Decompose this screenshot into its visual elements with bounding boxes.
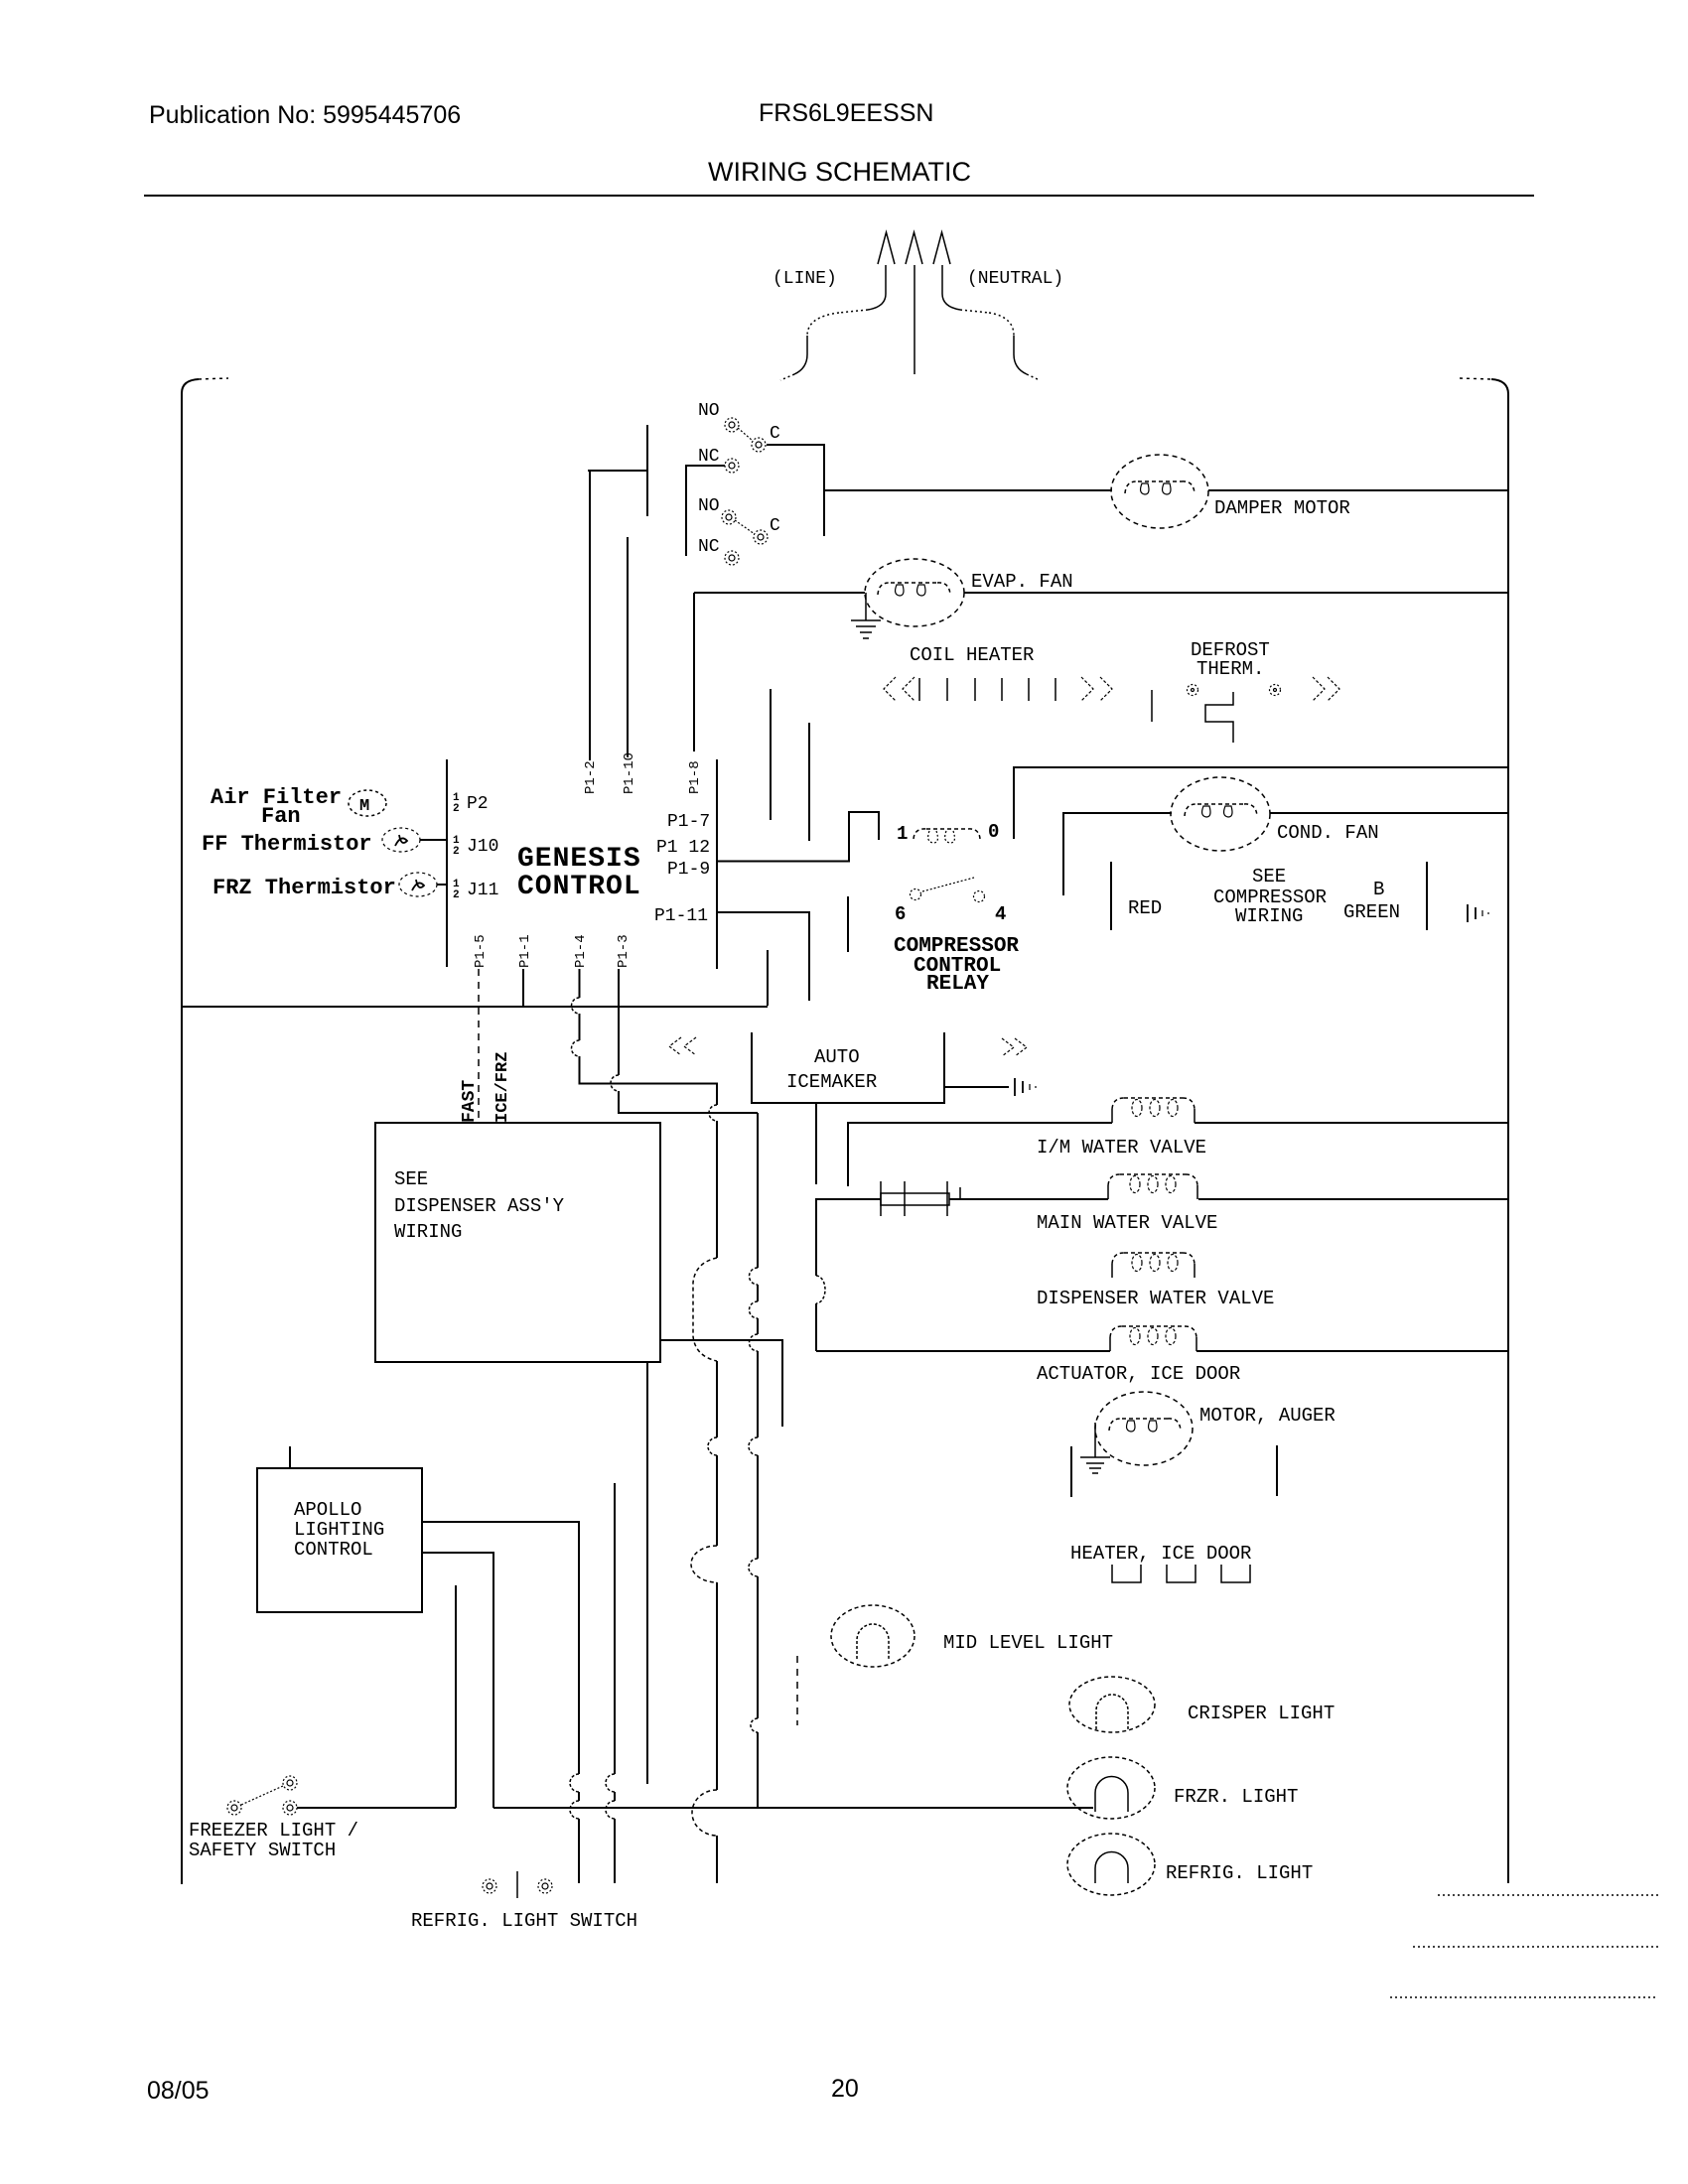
wire damper motor row [824, 489, 1508, 491]
wire column from dispenser box bottom [646, 1362, 648, 1784]
wire cond fan row [1063, 813, 1508, 895]
lamp crisper light [1069, 1677, 1155, 1732]
lamp frzr light [1067, 1757, 1155, 1819]
label FRZR. LIGHT [1174, 1786, 1298, 1808]
power plug left body curve [780, 313, 839, 380]
svg-text:C: C [770, 424, 780, 444]
svg-text:Fan: Fan [261, 804, 301, 829]
motor damper M1 [1111, 455, 1208, 528]
svg-text:NO: NO [698, 496, 720, 516]
heater ice door element 1 [1112, 1565, 1141, 1582]
freezer light safety switch left contact [227, 1801, 241, 1815]
pin label P1-11 [654, 906, 708, 926]
wire P1-5 dashed column [478, 969, 480, 1123]
switch SW1 damper lever [738, 428, 753, 441]
wire stub column x459 [455, 1585, 457, 1808]
genesis control board outline [447, 759, 717, 969]
svg-text:LIGHTING: LIGHTING [294, 1519, 384, 1541]
label COIL HEATER [910, 644, 1034, 666]
svg-text:B: B [1373, 879, 1384, 900]
svg-text:SEE: SEE [1252, 866, 1286, 887]
label DISPENSER WATER VALVE [1037, 1288, 1274, 1309]
svg-text:AUTO: AUTO [814, 1046, 860, 1068]
svg-text:DISPENSER WATER VALVE: DISPENSER WATER VALVE [1037, 1288, 1274, 1309]
solenoid I/M water valve coil [1112, 1098, 1195, 1123]
form dotted line 2 [1413, 1946, 1659, 1948]
connector chevrons left of icemaker [669, 1037, 696, 1055]
wire P1-4 column with hops [572, 969, 718, 1121]
hop column x619 at lights rail [606, 1774, 615, 1883]
svg-text:FRZR. LIGHT: FRZR. LIGHT [1174, 1786, 1298, 1808]
wire stub above main rail [767, 950, 769, 1006]
refrig light switch left contact [483, 1879, 496, 1893]
pin label P1-2 rotated [583, 760, 599, 794]
svg-text:P1-11: P1-11 [654, 906, 708, 926]
lamp mid level light [831, 1605, 914, 1667]
svg-text:(NEUTRAL): (NEUTRAL) [967, 269, 1063, 289]
defrost thermostat right contact [1270, 685, 1281, 696]
svg-text:CONTROL: CONTROL [517, 872, 641, 902]
label GREEN [1343, 901, 1400, 923]
svg-text:FRZ Thermistor: FRZ Thermistor [212, 876, 396, 900]
label HEATER, ICE DOOR [1070, 1543, 1251, 1565]
svg-text:WIRING SCHEMATIC: WIRING SCHEMATIC [708, 157, 971, 187]
label MID LEVEL LIGHT [943, 1632, 1113, 1654]
chassis border left edge [182, 378, 228, 1884]
wire P1-1 column [522, 969, 524, 1006]
label REFRIG. LIGHT [1166, 1862, 1313, 1884]
thermistor FRZ symbol [399, 873, 447, 896]
pin label P1-5 rotated [473, 934, 489, 968]
label FRZ Thermistor [212, 876, 396, 900]
svg-text:GREEN: GREEN [1343, 901, 1400, 923]
connector chevrons right of coil heater [1081, 677, 1112, 701]
label B [1373, 879, 1384, 900]
power plug center arrow [906, 232, 922, 264]
switch SW1 damper C label [770, 424, 780, 444]
wire evap fan row [694, 592, 1508, 594]
pin label J11 [453, 879, 498, 901]
title Publication No [149, 101, 461, 129]
svg-text:P1 12: P1 12 [656, 838, 710, 858]
label DAMPER MOTOR [1214, 497, 1350, 519]
svg-text:SAFETY SWITCH: SAFETY SWITCH [189, 1840, 336, 1861]
switch SW2 C label [770, 516, 780, 536]
wire dashed mid light to crisper [796, 1656, 798, 1725]
svg-text:ICE/FRZ: ICE/FRZ [493, 1052, 512, 1123]
label SEE COMPRESSOR WIRING [1213, 866, 1327, 927]
title WIRING SCHEMATIC [708, 157, 971, 187]
svg-text:P1-2: P1-2 [583, 760, 599, 794]
svg-text:2: 2 [453, 889, 460, 901]
solenoid main water valve coil [1108, 1174, 1197, 1199]
svg-text:WIRING: WIRING [1235, 905, 1303, 927]
wire top rail to right border [1014, 767, 1508, 839]
svg-text:APOLLO: APOLLO [294, 1499, 361, 1521]
chassis border right edge [1460, 378, 1508, 1883]
wire apollo lower output [422, 1553, 493, 1808]
svg-text:J11: J11 [467, 881, 498, 900]
pin label P1-8 rotated [687, 760, 703, 794]
svg-text:20: 20 [831, 2075, 859, 2103]
svg-text:P1-1: P1-1 [517, 934, 533, 968]
switch SW2 C contact [754, 530, 768, 544]
svg-text:ICEMAKER: ICEMAKER [786, 1071, 877, 1093]
relay coil pin 1 label [897, 823, 908, 845]
svg-text:I/M WATER VALVE: I/M WATER VALVE [1037, 1137, 1206, 1159]
label FREEZER LIGHT / SAFETY SWITCH [189, 1820, 358, 1861]
svg-text:6: 6 [895, 903, 906, 925]
wire actuator row [816, 1350, 1508, 1352]
lamp refrig light [1067, 1834, 1155, 1895]
label EVAP. FAN [971, 571, 1073, 593]
switch SW2 NC contact [725, 551, 739, 565]
pin label P1-1 rotated [517, 934, 533, 968]
label AUTO ICEMAKER [786, 1046, 877, 1093]
form dotted line 3 [1390, 1996, 1655, 1998]
svg-text:0: 0 [988, 821, 999, 843]
switch SW2 NO contact [722, 510, 736, 524]
svg-text:COND. FAN: COND. FAN [1277, 822, 1379, 844]
motor condenser fan [1171, 777, 1270, 851]
pin label P1-9 [667, 860, 710, 880]
svg-text:MAIN WATER VALVE: MAIN WATER VALVE [1037, 1212, 1217, 1234]
defrost thermostat left contact [1188, 685, 1198, 696]
switch SW2 lever [735, 520, 755, 534]
label GENESIS CONTROL [517, 844, 641, 902]
label REFRIG. LIGHT SWITCH [411, 1910, 637, 1932]
wire main valve row [816, 1198, 1508, 1200]
switch SW1 damper NO label [698, 401, 720, 421]
wire icemaker to connector [944, 1086, 1009, 1088]
label LINE [773, 269, 837, 289]
svg-text:RED: RED [1128, 897, 1162, 919]
svg-text:ACTUATOR, ICE DOOR: ACTUATOR, ICE DOOR [1037, 1363, 1240, 1385]
svg-text:CONTROL: CONTROL [294, 1539, 373, 1561]
svg-text:P1-7: P1-7 [667, 812, 710, 832]
wire column x722 lower run [691, 1121, 717, 1883]
connector chevrons right of defrost [1313, 677, 1339, 701]
wire P1-3 column [611, 969, 758, 1113]
svg-text:REFRIG. LIGHT SWITCH: REFRIG. LIGHT SWITCH [411, 1910, 637, 1932]
svg-text:FRS6L9EESSN: FRS6L9EESSN [759, 99, 933, 127]
switch SW2 NC label [698, 537, 720, 557]
svg-text:NC: NC [698, 537, 720, 557]
svg-text:THERM.: THERM. [1196, 658, 1264, 680]
motor air filter fan M [349, 790, 386, 816]
label SEE DISPENSER ASSY WIRING [394, 1168, 565, 1243]
wire stub column x619 [614, 1483, 616, 1774]
connector plug compressor [1468, 904, 1488, 922]
label APOLLO LIGHTING CONTROL [294, 1499, 384, 1561]
svg-text:DAMPER MOTOR: DAMPER MOTOR [1214, 497, 1350, 519]
switch SW2 freezer-fan NO label [698, 496, 720, 516]
svg-text:FF Thermistor: FF Thermistor [202, 832, 372, 857]
svg-text:NO: NO [698, 401, 720, 421]
label ICE/FRZ rotated [493, 1052, 512, 1123]
wire stub right of auger [1276, 1445, 1278, 1496]
svg-text:P1-5: P1-5 [473, 934, 489, 968]
svg-text:RELAY: RELAY [926, 973, 989, 996]
footer page number [831, 2075, 859, 2103]
power plug right lead [942, 265, 989, 313]
svg-text:SEE: SEE [394, 1168, 428, 1190]
label CRISPER LIGHT [1188, 1703, 1335, 1724]
switch SW1 damper NC label [698, 447, 720, 467]
pin label P1-10 rotated [622, 752, 637, 794]
label MAIN WATER VALVE [1037, 1212, 1217, 1234]
svg-text:REFRIG. LIGHT: REFRIG. LIGHT [1166, 1862, 1313, 1884]
heater ice door element 2 [1167, 1565, 1196, 1582]
relay pin 4 label [995, 903, 1006, 925]
svg-text:2: 2 [453, 846, 460, 858]
wire stub above apollo box [289, 1446, 291, 1468]
label DEFROST THERM [1191, 639, 1270, 680]
heater coil element ticks [919, 678, 1055, 701]
label MOTOR, AUGER [1199, 1405, 1336, 1427]
svg-text:J10: J10 [467, 837, 498, 857]
wire main horizontal rail [182, 1006, 768, 1008]
wire P1-11 run [717, 912, 809, 1001]
title rule line [144, 195, 1534, 197]
wire P1-2 riser [588, 425, 647, 760]
connector plug icemaker [1015, 1078, 1036, 1096]
switch SW1 damper C contact [752, 438, 766, 452]
wire defrost stub right [808, 723, 810, 841]
svg-text:2: 2 [453, 803, 460, 815]
svg-text:DISPENSER ASS'Y: DISPENSER ASS'Y [394, 1195, 565, 1217]
refrig light switch bar [516, 1871, 518, 1898]
defrost thermostat bimetal [1205, 692, 1233, 743]
svg-text:EVAP. FAN: EVAP. FAN [971, 571, 1073, 593]
wire freezer switch to column [297, 1807, 456, 1809]
form dotted line 1 [1438, 1894, 1658, 1896]
solenoid actuator ice door coil [1110, 1326, 1196, 1351]
footer date [147, 2077, 210, 2105]
svg-text:P1-4: P1-4 [573, 934, 589, 968]
thermistor FF symbol [382, 828, 447, 852]
svg-text:P1-3: P1-3 [616, 934, 632, 968]
power plug right body curve [989, 313, 1040, 380]
svg-text:Publication No: 5995445706: Publication No: 5995445706 [149, 101, 461, 129]
wire apollo upper output [422, 1522, 579, 1774]
svg-text:NC: NC [698, 447, 720, 467]
label ACTUATOR, ICE DOOR [1037, 1363, 1240, 1385]
svg-text:1: 1 [897, 823, 908, 845]
fuse thermal cutoff [881, 1181, 960, 1216]
connector chevrons left of coil heater [884, 677, 914, 701]
power plug neutral arrow [933, 232, 950, 264]
wire lights feed rail [493, 1807, 1093, 1809]
auto icemaker box [752, 1032, 944, 1103]
pin label P1-3 rotated [616, 934, 632, 968]
wire compressor green lead [1426, 862, 1428, 930]
relay pin 6 label [895, 903, 906, 925]
motor auger [1095, 1392, 1193, 1465]
wire I/M valve row [848, 1123, 1508, 1186]
svg-text:P2: P2 [467, 794, 489, 814]
power plug center wire [914, 265, 915, 374]
wire SW1 NC stub [686, 466, 725, 556]
svg-text:GENESIS: GENESIS [517, 844, 641, 875]
relay contact lever [922, 878, 974, 891]
connector chevrons right of icemaker [1002, 1038, 1027, 1056]
title model number [759, 99, 933, 127]
svg-text:C: C [770, 516, 780, 536]
relay coil pin 0 label [988, 821, 999, 843]
svg-text:COIL HEATER: COIL HEATER [910, 644, 1034, 666]
refrig light switch right contact [538, 1879, 552, 1893]
label Air Filter Fan [211, 785, 342, 829]
dispenser assembly box [375, 1123, 660, 1362]
wire icemaker feed column [816, 1103, 825, 1351]
relay contact 6 [911, 889, 921, 900]
pin label P1-4 rotated [573, 934, 589, 968]
svg-text:M: M [359, 797, 369, 816]
freezer light safety switch lever [241, 1786, 283, 1805]
wire defrost stub left [770, 689, 772, 820]
pin label P2 [453, 792, 489, 815]
label COND. FAN [1277, 822, 1379, 844]
relay contact 4 [974, 891, 985, 902]
wire stub below relay [847, 896, 849, 952]
relay coil of compressor control relay [914, 829, 980, 843]
freezer light safety switch upper contact [283, 1776, 297, 1790]
svg-text:HEATER, ICE DOOR: HEATER, ICE DOOR [1070, 1543, 1251, 1565]
label I/M WATER VALVE [1037, 1137, 1206, 1159]
hop column x583 at lights rail [570, 1774, 579, 1883]
wire stub left of auger [1070, 1446, 1072, 1497]
switch SW1 damper NO contact [725, 418, 739, 432]
svg-text:P1-9: P1-9 [667, 860, 710, 880]
power plug left lead [839, 265, 886, 313]
label FAST rotated [460, 1080, 480, 1123]
svg-text:P1-8: P1-8 [687, 760, 703, 794]
wire dispenser box to ice door actuator branch [660, 1340, 782, 1427]
svg-text:FAST: FAST [460, 1080, 480, 1123]
svg-text:P1-10: P1-10 [622, 752, 637, 794]
wire SW1 C to damper motor [767, 445, 824, 536]
ground evap fan [851, 593, 881, 638]
switch SW1 damper NC contact [725, 459, 739, 473]
wire P1-10 column [627, 537, 629, 756]
svg-text:CRISPER LIGHT: CRISPER LIGHT [1188, 1703, 1335, 1724]
label FF Thermistor [202, 832, 372, 857]
power plug line arrow [878, 232, 895, 264]
wire P1-8 column [693, 593, 695, 751]
connector pin defrost [1151, 690, 1153, 722]
wire column x763 lower run [749, 1113, 758, 1808]
svg-text:MOTOR, AUGER: MOTOR, AUGER [1199, 1405, 1336, 1427]
wire P1-9 to relay coil [717, 812, 879, 862]
svg-text:MID LEVEL LIGHT: MID LEVEL LIGHT [943, 1632, 1113, 1654]
solenoid dispenser water valve coil [1112, 1253, 1195, 1278]
heater ice door element 3 [1221, 1565, 1250, 1582]
motor evap fan [865, 559, 964, 626]
pin label P1-7 [667, 812, 710, 832]
label RED [1128, 897, 1162, 919]
svg-text:FREEZER LIGHT /: FREEZER LIGHT / [189, 1820, 358, 1842]
freezer light safety switch right contact [283, 1801, 297, 1815]
svg-text:WIRING: WIRING [394, 1221, 462, 1243]
pin label P1 12 [656, 838, 710, 858]
apollo lighting control box [257, 1468, 422, 1612]
wire compressor red lead [1110, 862, 1112, 930]
label NEUTRAL [967, 269, 1063, 289]
svg-text:4: 4 [995, 903, 1006, 925]
ground motor auger [1080, 1423, 1110, 1473]
svg-text:08/05: 08/05 [147, 2077, 210, 2105]
svg-text:(LINE): (LINE) [773, 269, 837, 289]
label COMPRESSOR CONTROL RELAY [894, 935, 1019, 996]
pin label J10 [453, 835, 498, 858]
